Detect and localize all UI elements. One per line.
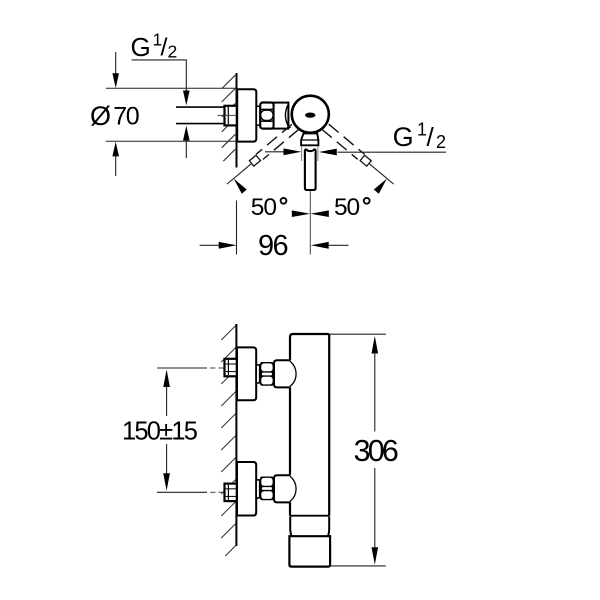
ghost lever left (dashed, swung 50 deg) — [224, 123, 307, 197]
svg-text:/: / — [427, 122, 435, 152]
supply nut top (front view) — [225, 359, 237, 377]
50 deg arc arrowhead left (at centerline) — [292, 210, 310, 217]
306 extension line top — [330, 333, 386, 335]
wall line (front view) — [235, 324, 237, 546]
96 dimension arrow left — [200, 244, 221, 246]
outlet cap — [289, 536, 330, 566]
G 1/2 arrow up — [183, 126, 190, 141]
svg-text:1: 1 — [417, 119, 427, 139]
cap marking dash — [305, 113, 315, 118]
G 1/2 arrow down — [183, 91, 190, 106]
union nut top (front view) — [260, 362, 274, 386]
washer bottom (front view) — [256, 480, 260, 498]
diameter 70 arrow up — [112, 142, 119, 157]
svg-text:50: 50 — [334, 194, 360, 221]
washer top (front view) — [256, 365, 260, 383]
50 deg arrow at lever right — [319, 149, 337, 156]
wall line (top view) — [236, 73, 238, 168]
svg-text:306: 306 — [354, 434, 398, 468]
50 deg dimension line left — [265, 151, 284, 153]
valve housing top (front view) — [274, 360, 291, 387]
96 dimension arrow right — [311, 242, 329, 249]
50 deg arc arrowhead right (at centerline) — [310, 210, 328, 217]
svg-text:50: 50 — [251, 194, 277, 221]
svg-text:G: G — [131, 32, 151, 62]
supply nut bottom (front view) — [225, 484, 237, 502]
svg-text:G: G — [393, 122, 414, 152]
valve housing bottom (front view) — [274, 475, 291, 502]
breast arc bottom — [290, 476, 296, 501]
body joint line — [290, 515, 329, 517]
union nut (top view) — [260, 103, 273, 129]
150 extension line top (supply centerline) — [157, 367, 207, 369]
svg-text:150±15: 150±15 — [122, 417, 198, 445]
50 deg arrow at lever left — [284, 148, 302, 155]
body (front view) — [290, 334, 329, 516]
G 1/2 leader line left — [132, 60, 187, 92]
flange top (front view) — [237, 347, 256, 400]
306 dimension line — [372, 336, 379, 354]
svg-text:70: 70 — [113, 102, 138, 130]
lever neck collar — [301, 133, 318, 145]
svg-text:Ø: Ø — [90, 101, 111, 131]
supply pipe (top view) — [176, 106, 230, 108]
flange (top view) — [237, 89, 256, 141]
breast arc top — [290, 361, 296, 386]
svg-text:96: 96 — [258, 230, 288, 262]
diameter 70 bottom extension line — [106, 140, 236, 142]
svg-text:2: 2 — [168, 42, 178, 62]
ball joint arc (top view) — [285, 104, 288, 127]
body taper section — [290, 517, 329, 537]
mixer body circle (top view) — [292, 96, 329, 133]
diameter 70 top extension line — [106, 87, 236, 89]
96 extension line left — [236, 201, 238, 255]
lever centerline — [309, 191, 311, 255]
150 dimension line — [163, 370, 170, 388]
connector cylinder (top view) — [274, 103, 289, 129]
pipe centerline (top view) — [218, 114, 234, 116]
diameter 70 arrow down — [115, 52, 117, 74]
svg-text:2: 2 — [436, 132, 446, 152]
150 extension line bottom (supply centerline) — [157, 491, 207, 493]
50 deg dimension line right — [338, 151, 447, 153]
svg-text:/: / — [161, 34, 168, 62]
washer (top view) — [256, 106, 260, 125]
306 extension line bottom — [331, 565, 386, 567]
lever silhouette edge lines — [301, 146, 303, 161]
ghost lever right (dashed, swung 50 deg) — [314, 123, 397, 197]
lever handle (top view) — [305, 149, 316, 190]
union nut bottom (front view) — [260, 477, 274, 501]
supply nut (top view) — [225, 106, 237, 126]
flange bottom (front view) — [237, 462, 256, 516]
wall hatching (front view) — [221, 325, 236, 556]
wall hatching (top view) — [222, 75, 235, 161]
